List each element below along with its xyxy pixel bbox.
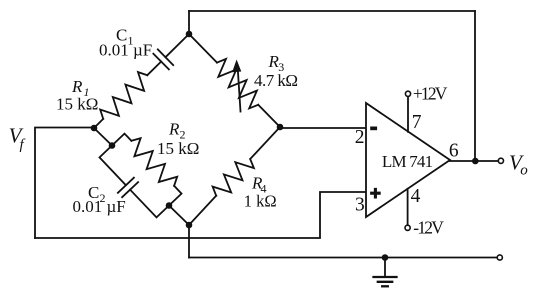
svg-text:+12V: +12V [413,83,448,103]
plus sign pin3 [370,188,381,199]
node junction top [186,31,193,38]
capacitor C1 [153,54,169,70]
resistor R4 [189,196,216,225]
wire bottom node down [188,225,190,258]
wire feedback vertical [474,11,476,161]
svg-text:-12V: -12V [413,218,444,238]
resistor R3 potentiometer [189,34,217,63]
svg-text:3: 3 [355,195,365,216]
svg-text:f: f [20,137,26,153]
svg-text:1 kΩ: 1 kΩ [244,191,277,210]
wire output [450,160,498,162]
resistor R2 branch [112,134,131,146]
svg-text:6: 6 [449,140,459,161]
wire Vf horizontal [35,128,94,239]
terminal bottom right [497,255,502,260]
minus sign pin2 [370,127,377,131]
node junction output [472,158,479,165]
wire bottom rail [189,257,497,259]
node junction right [277,124,284,131]
capacitor C2 branch [100,146,126,186]
wire right node to pin2 [280,127,366,129]
node junction J2 [166,202,173,209]
node junction J1 [109,142,116,149]
wire Vf bottom to pin3 [35,192,366,238]
svg-text:2: 2 [355,127,365,148]
svg-text:0.01 µF: 0.01 µF [99,40,152,59]
wire left node to J1 [94,128,112,146]
node junction ground [382,254,389,261]
svg-text:4: 4 [411,186,421,207]
op-amp U1 triangle [366,103,450,217]
svg-text:R: R [168,120,180,139]
wire top node to rail [188,11,190,34]
svg-text:4.7 kΩ: 4.7 kΩ [254,71,298,90]
ground stem [384,258,386,277]
svg-text:o: o [520,163,528,179]
wire J2 to bottom node [169,206,189,226]
ground symbol [374,276,397,278]
terminal -12V [405,225,410,230]
terminal +12V [405,91,410,96]
wire top rail [189,10,475,12]
potentiometer arrow R3 [238,71,241,112]
wire C1 to top node [166,34,190,57]
wire pin7 [407,97,409,132]
node junction bottom [186,222,193,229]
terminal Vo [498,158,503,163]
svg-text:7: 7 [412,112,422,133]
svg-text:LM 741: LM 741 [382,152,433,171]
svg-text:R: R [71,77,83,96]
wire R1 to C1 [147,62,161,76]
svg-text:0.01 µF: 0.01 µF [73,197,126,216]
svg-text:15 kΩ: 15 kΩ [56,94,98,113]
node junction left [91,125,98,132]
wire pin4 [407,189,409,225]
resistor R1 [94,119,103,128]
svg-text:15 kΩ: 15 kΩ [157,139,199,158]
